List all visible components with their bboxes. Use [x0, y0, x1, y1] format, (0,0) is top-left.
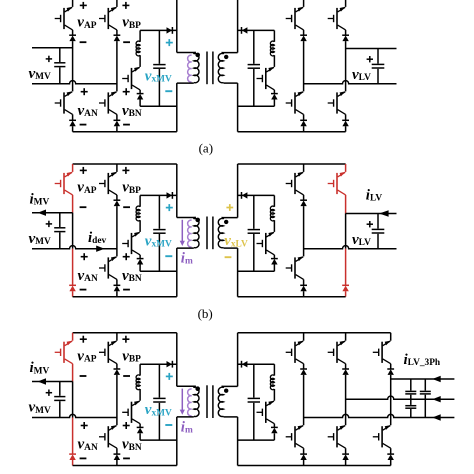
label + of v_xMV (cyan): [166, 373, 173, 380]
capacitor filter C12: [405, 391, 416, 394]
transistor LV leg A' top IGBT: [286, 172, 304, 195]
wire filter capacitor branch 2 upper: [424, 379, 426, 391]
wire MV clamp branch bottom: [139, 265, 141, 272]
wire LV transformer bus lower: [237, 83, 239, 132]
transistor Q_BP/Q_BN leg B top IGBT: [99, 7, 117, 30]
diode MV clamp diode: [137, 94, 144, 100]
wire LV leg B' red tail: [345, 291, 347, 297]
capacitor MV input capacitor: [54, 63, 65, 67]
inductor MV clamp inductor: [136, 41, 140, 56]
wire transformer primary top stub: [177, 385, 196, 387]
wire transformer primary bottom stub: [177, 247, 194, 249]
label + of v_AP: [80, 2, 87, 9]
transistor LV leg B' top IGBT: [328, 7, 346, 30]
capacitor LV clamp capacitor: [248, 65, 260, 69]
wire LV clamp branch bottom: [273, 433, 275, 440]
transistor LV clamp IGBT: [257, 67, 275, 90]
diode leg A red freewheeling diode: [69, 285, 76, 291]
wire MV clamp top rail: [140, 363, 177, 365]
wire v_MV positive terminal: [32, 381, 73, 383]
wire filter capacitor branch 1 lower: [410, 409, 412, 418]
wire transformer secondary bottom stub: [224, 82, 238, 84]
wire LV clamp capacitor branch top: [253, 30, 255, 63]
diode LV clamp series diode: [242, 361, 248, 368]
diode LV clamp diode: [271, 259, 278, 265]
wire MV bottom rail: [73, 465, 177, 467]
transistor LV leg A' top IGBT: [286, 7, 304, 30]
diode Q_BP/Q_BN leg B top series diode: [114, 200, 121, 206]
arrow phase U current: [432, 414, 440, 420]
label - of v_BN: [123, 457, 130, 459]
label + of v_BP: [122, 2, 129, 9]
inductor magnetizing inductance (purple): [188, 55, 192, 82]
wire phase U bottom emitter lead: [303, 448, 305, 454]
node primary polarity dot: [195, 218, 200, 223]
wire LV clamp emitter lead: [273, 424, 275, 428]
wire LV transformer bus upper: [237, 0, 239, 53]
wire MV clamp branch bottom: [139, 100, 141, 107]
arrow phase V current: [432, 396, 440, 402]
wire phase U output line: [304, 414, 455, 417]
diode leg A red freewheeling diode: [69, 454, 76, 460]
wire LV leg A' bottom emitter lead: [303, 114, 305, 120]
wire MV clamp emitter lead: [139, 424, 141, 428]
label + of v_BP: [122, 167, 129, 174]
wire MV transformer bus lower: [176, 248, 178, 297]
wire leg A red emitter path: [72, 195, 74, 213]
wire LV bottom rail: [238, 296, 346, 298]
winding transformer primary: [194, 386, 196, 388]
diode LV leg B' top series diode: [342, 35, 349, 41]
svg-text:(b): (b): [198, 306, 213, 321]
diode Q_AP/Q_AN leg A top series diode: [69, 35, 76, 41]
wire phase V mid section: [345, 375, 347, 425]
wire LV leg A' emitter lead: [303, 195, 305, 200]
wire leg A red collector stub: [72, 333, 74, 341]
wire MV clamp capacitor branch bottom: [158, 403, 160, 440]
wire phase W collector stub: [390, 333, 392, 341]
label + of v_xMV (cyan): [166, 204, 173, 211]
wire MV inductor to IGBT: [139, 220, 141, 232]
winding transformer primary: [194, 53, 196, 55]
capacitor LV clamp capacitor: [248, 230, 260, 234]
wire LV leg A' collector stub: [303, 164, 305, 172]
label - of v_AP: [80, 375, 87, 377]
transistor Q_BP/Q_BN leg B top IGBT: [99, 341, 117, 364]
wire transformer secondary bottom stub: [224, 416, 238, 418]
winding transformer secondary: [222, 53, 224, 55]
wire Q_BP/Q_BN leg B mid section: [116, 375, 118, 425]
transistor Q_BP/Q_BN leg B bottom IGBT: [99, 425, 117, 448]
wire LV clamp bottom rail: [238, 270, 275, 272]
capacitor MV clamp capacitor: [153, 398, 165, 402]
label + of v_BN: [123, 253, 130, 260]
diode LV leg A' bottom series diode: [300, 120, 307, 126]
wire leg A red tail: [72, 460, 74, 466]
wire transformer secondary top stub: [222, 385, 238, 387]
label + of v_AN: [81, 88, 88, 95]
transistor phase W bottom IGBT: [373, 425, 391, 448]
label + of v_AN: [81, 253, 88, 260]
wire LV top DC rail (3-phase): [238, 332, 391, 334]
wire LV output capacitor branch bottom: [377, 69, 379, 84]
wire Q_BP/Q_BN leg B emitter lead: [116, 195, 118, 200]
diode MV clamp diode: [137, 259, 144, 265]
inductor LV clamp inductor: [270, 206, 274, 221]
wire LV leg B' tail to bottom rail: [345, 126, 347, 132]
diode LV clamp diode: [271, 427, 278, 433]
label - of v_BN: [123, 289, 130, 291]
transistor Q_BP/Q_BN leg B bottom IGBT: [99, 256, 117, 279]
label + of v_AP: [80, 167, 87, 174]
wire LV clamp capacitor branch bottom: [253, 69, 255, 106]
transistor MV clamp IGBT: [122, 67, 140, 90]
wire LV output upper rail: [346, 48, 397, 50]
label + of v_AP: [80, 336, 87, 343]
wire magnetizing current arrow line: [181, 220, 183, 242]
label - of v_xLV (gold): [225, 256, 232, 258]
wire LV clamp emitter lead: [273, 255, 275, 259]
wire Q_BP/Q_BN leg B mid section: [116, 41, 118, 91]
core transformer core bars: [207, 217, 213, 250]
wire MV clamp capacitor branch top: [158, 30, 160, 63]
wire MV clamp capacitor branch bottom: [158, 69, 160, 106]
diode LV clamp diode: [271, 94, 278, 100]
wire Q_BP/Q_BN leg B tail to bottom rail: [116, 126, 118, 132]
capacitor MV input capacitor: [54, 228, 65, 232]
wire leg A red return path: [72, 418, 74, 455]
wire MV bottom rail: [73, 131, 177, 133]
core transformer core bars: [207, 52, 213, 85]
wire LV leg B' collector stub: [345, 0, 347, 7]
wire Q_AP/Q_AN leg A emitter lead: [72, 30, 74, 35]
wire LV leg B' red return path: [345, 249, 347, 286]
wire MV transformer bus upper: [176, 0, 178, 53]
wire phase W mid section: [390, 375, 392, 425]
capacitor MV clamp capacitor: [153, 230, 165, 234]
wire filter capacitor branch 2 lower: [424, 395, 426, 418]
label - of v_AP: [80, 206, 87, 208]
wire LV leg B' mid section: [345, 41, 347, 91]
wire Q_BP/Q_BN leg B tail to bottom rail: [116, 291, 118, 297]
wire phase V emitter lead: [345, 364, 347, 369]
arrow magnetizing current direction: [180, 410, 185, 415]
wire LV transformer bus upper: [237, 333, 239, 387]
wire MV clamp emitter lead: [139, 255, 141, 259]
winding transformer secondary: [222, 218, 224, 220]
diode Q_BP/Q_BN leg B bottom series diode: [114, 454, 121, 460]
label - of v_AN: [80, 289, 87, 291]
node primary polarity dot: [195, 53, 200, 58]
wire leg A middle section: [72, 382, 74, 418]
wire MV input capacitor branch bottom: [59, 232, 61, 248]
wire Q_AP/Q_AN leg A bottom emitter lead: [72, 114, 74, 120]
label + of v_BN: [123, 88, 130, 95]
diode MV clamp series diode: [167, 192, 173, 199]
wire LV clamp branch top: [273, 30, 275, 41]
wire Q_AP/Q_AN leg A mid section: [72, 41, 74, 91]
wire MV bottom rail: [73, 296, 177, 298]
diode MV clamp series diode: [167, 361, 173, 368]
wire MV clamp bottom rail: [140, 270, 177, 272]
wire phase W bottom emitter lead: [390, 448, 392, 454]
wire leg A middle section: [72, 213, 74, 249]
wire leg A red collector stub: [72, 164, 74, 172]
diode phase W top series diode: [387, 369, 394, 375]
wire LV clamp bottom rail: [238, 105, 275, 107]
wire v_MV positive terminal: [32, 47, 73, 49]
wire LV leg B' middle section: [345, 214, 347, 249]
transistor LV leg A' bottom IGBT: [286, 91, 304, 114]
wire Q_BP/Q_BN leg B bottom emitter lead: [116, 114, 118, 120]
wire LV clamp capacitor branch top: [253, 364, 255, 397]
arrow i_MV direction: [38, 210, 46, 216]
wire v_MV negative rail: [32, 246, 117, 249]
wire MV clamp top rail: [140, 194, 177, 196]
wire MV transformer bus upper: [176, 164, 178, 218]
capacitor MV input capacitor: [54, 397, 65, 401]
wire MV top DC rail: [73, 163, 177, 165]
diode phase U top series diode: [300, 369, 307, 375]
wire LV clamp capacitor branch bottom: [253, 403, 255, 440]
wire phase U emitter lead: [303, 364, 305, 369]
label + of v_LV: [367, 56, 373, 62]
wire Q_BP/Q_BN leg B collector stub: [116, 333, 118, 341]
node secondary polarity dot: [224, 389, 228, 393]
wire LV bottom rail: [238, 131, 346, 133]
wire LV bottom rail (3-phase): [238, 465, 391, 467]
wire LV leg A' mid section: [303, 41, 305, 91]
wire LV leg A' emitter lead: [303, 30, 305, 35]
inductor MV clamp inductor: [136, 375, 140, 390]
diode LV leg A' top series diode: [300, 200, 307, 206]
wire LV output lower rail: [304, 81, 397, 84]
diode Q_BP/Q_BN leg B bottom series diode: [114, 285, 121, 291]
wire LV clamp branch bottom: [273, 100, 275, 107]
wire Q_BP/Q_BN leg B collector stub: [116, 164, 118, 172]
label + of v_AN: [81, 422, 88, 429]
diode MV clamp series diode: [167, 27, 173, 34]
wire Q_BP/Q_BN leg B emitter lead: [116, 30, 118, 35]
wire phase W output line: [391, 378, 455, 380]
transistor LV leg A' bottom IGBT: [286, 256, 304, 279]
diode LV clamp series diode: [242, 192, 248, 199]
wire magnetizing current arrow line: [181, 389, 183, 411]
diode LV leg A' top series diode: [300, 35, 307, 41]
wire LV clamp top rail: [238, 363, 275, 365]
label - of v_AP: [80, 41, 87, 43]
transistor LV clamp IGBT: [257, 232, 275, 255]
wire LV inductor to IGBT: [273, 55, 275, 67]
wire MV inductor to IGBT: [139, 55, 141, 67]
label - of v_xMV (cyan): [165, 90, 172, 92]
transistor LV clamp IGBT: [257, 401, 275, 424]
label - of v_AN: [80, 124, 87, 126]
label + of v_xLV (gold): [226, 204, 233, 211]
wire MV input capacitor branch top: [59, 382, 61, 396]
wire phase U collector stub: [303, 333, 305, 341]
wire MV clamp branch top: [139, 30, 141, 41]
diode LV leg A' bottom series diode: [300, 285, 307, 291]
winding transformer secondary: [222, 386, 224, 388]
winding transformer primary: [194, 218, 196, 220]
transistor LV leg B' red IGBT: [328, 172, 346, 195]
wire LV transformer bus lower: [237, 417, 239, 466]
wire LV leg A' bottom emitter lead: [303, 279, 305, 285]
wire LV clamp capacitor branch bottom: [253, 234, 255, 271]
diode phase V top series diode: [342, 369, 349, 375]
diode LV leg B' red freewheeling diode: [342, 285, 349, 291]
label + of v_LV: [367, 221, 373, 227]
wire MV transformer bus upper: [176, 333, 178, 387]
diode phase U bottom series diode: [300, 454, 307, 460]
wire LV inductor to IGBT: [273, 389, 275, 401]
wire Q_BP/Q_BN leg B emitter lead: [116, 364, 118, 369]
wire MV clamp top rail: [140, 29, 177, 31]
inductor LV clamp inductor: [270, 41, 274, 56]
wire phase U tail to bottom rail: [303, 460, 305, 466]
wire Q_BP/Q_BN leg B bottom emitter lead: [116, 279, 118, 285]
node secondary polarity dot: [224, 55, 228, 59]
wire phase V tail to bottom rail: [345, 460, 347, 466]
wire v_MV negative rail: [32, 81, 117, 84]
svg-text:(a): (a): [199, 141, 213, 156]
diode Q_BP/Q_BN leg B top series diode: [114, 35, 121, 41]
wire LV clamp capacitor branch top: [253, 195, 255, 228]
wire MV transformer bus lower: [176, 417, 178, 466]
transistor LV leg B' bottom IGBT: [328, 91, 346, 114]
label + of v_xMV (cyan): [166, 39, 173, 46]
wire Q_BP/Q_BN leg B collector stub: [116, 0, 118, 7]
arrow i_LV direction: [379, 210, 388, 216]
wire LV leg A' tail to bottom rail: [303, 126, 305, 132]
label polarity + of MV capacitor: [46, 56, 52, 62]
wire Q_AP/Q_AN leg A tail to bottom rail: [72, 126, 74, 132]
wire MV inductor to IGBT: [139, 389, 141, 401]
arrow magnetizing current direction: [180, 241, 185, 246]
capacitor LV output capacitor: [372, 229, 385, 233]
arrow i_dev direction: [96, 246, 104, 252]
wire phase V collector stub: [345, 333, 347, 341]
transistor phase W top IGBT: [373, 341, 391, 364]
wire transformer primary bottom stub: [177, 416, 194, 418]
transistor MV clamp IGBT: [122, 232, 140, 255]
wire leg A red tail: [72, 291, 74, 297]
wire MV clamp branch top: [139, 364, 141, 375]
wire MV top DC rail: [73, 332, 177, 334]
wire transformer secondary top stub: [222, 217, 238, 219]
wire LV leg B' red collector stub: [345, 164, 347, 172]
wire LV transformer bus lower: [237, 248, 239, 297]
wire leg A red return path: [72, 249, 74, 286]
wire LV clamp branch bottom: [273, 265, 275, 272]
label - of v_xMV (cyan): [165, 255, 172, 257]
wire phase W emitter lead: [390, 364, 392, 369]
diode LV clamp series diode: [242, 27, 248, 34]
wire MV input capacitor branch top: [59, 48, 61, 62]
transistor leg A red IGBT: [55, 341, 73, 364]
wire Q_BP/Q_BN leg B bottom emitter lead: [116, 448, 118, 454]
wire transformer secondary top stub: [222, 52, 238, 54]
wire MV clamp branch top: [139, 195, 141, 206]
wire LV output capacitor branch bottom: [377, 234, 379, 249]
wire LV clamp emitter lead: [273, 90, 275, 94]
wire LV leg B' red emitter path: [345, 195, 347, 214]
wire LV leg B' emitter lead: [345, 30, 347, 35]
label - of v_AN: [80, 457, 87, 459]
wire MV clamp emitter lead: [139, 90, 141, 94]
wire MV clamp capacitor branch bottom: [158, 234, 160, 271]
wire LV inductor to IGBT: [273, 220, 275, 232]
label polarity + of MV capacitor: [46, 221, 52, 227]
wire Q_BP/Q_BN leg B mid section: [116, 206, 118, 256]
diode phase W bottom series diode: [387, 454, 394, 460]
arrow i_MV direction: [38, 378, 46, 384]
wire MV clamp branch bottom: [139, 433, 141, 440]
wire LV transformer bus upper: [237, 164, 239, 218]
core transformer core bars: [207, 385, 213, 418]
wire LV output upper rail: [346, 213, 397, 215]
diode Q_AP/Q_AN leg A bottom series diode: [69, 120, 76, 126]
transistor phase V top IGBT: [328, 341, 346, 364]
inductor MV clamp inductor: [136, 206, 140, 221]
wire Q_BP/Q_BN leg B tail to bottom rail: [116, 460, 118, 466]
capacitor filter C23: [405, 406, 416, 409]
wire LV clamp branch top: [273, 195, 275, 206]
label - of v_xMV (cyan): [165, 424, 172, 426]
label polarity + of MV capacitor: [46, 390, 52, 396]
wire MV input capacitor branch bottom: [59, 67, 61, 83]
label + of v_BN: [123, 422, 130, 429]
arrow phase W current: [432, 376, 440, 382]
wire MV input capacitor branch bottom: [59, 401, 61, 417]
node secondary polarity dot: [224, 220, 228, 224]
wire filter capacitor branch 1 upper: [410, 379, 412, 391]
transistor leg A red IGBT: [55, 172, 73, 195]
label - of v_BP: [123, 375, 130, 377]
transistor Q_BP/Q_BN leg B bottom IGBT: [99, 91, 117, 114]
wire LV output capacitor branch top: [377, 214, 379, 229]
wire phase U mid section: [303, 375, 305, 425]
wire LV leg B' bottom emitter lead: [345, 114, 347, 120]
label - of v_BN: [123, 124, 130, 126]
diode Q_BP/Q_BN leg B bottom series diode: [114, 120, 121, 126]
transistor Q_AP/Q_AN leg A top IGBT: [55, 7, 73, 30]
wire phase W tail to bottom rail: [390, 460, 392, 466]
wire transformer primary bottom stub: [177, 82, 194, 84]
transistor MV clamp IGBT: [122, 401, 140, 424]
label - of v_BP: [123, 206, 130, 208]
wire v_MV positive terminal: [32, 212, 73, 214]
wire phase V bottom emitter lead: [345, 448, 347, 454]
capacitor MV clamp capacitor: [153, 65, 165, 69]
capacitor LV clamp capacitor: [248, 398, 260, 402]
wire LV top DC rail: [238, 163, 346, 165]
wire LV output capacitor branch top: [377, 49, 379, 64]
wire MV clamp bottom rail: [140, 439, 177, 441]
diode MV clamp diode: [137, 427, 144, 433]
wire LV leg A' tail to bottom rail: [303, 291, 305, 297]
label + of v_BP: [122, 336, 129, 343]
transistor phase V bottom IGBT: [328, 425, 346, 448]
wire MV input capacitor branch top: [59, 213, 61, 227]
wire MV clamp bottom rail: [140, 105, 177, 107]
capacitor filter C13: [420, 391, 431, 394]
transistor phase U top IGBT: [286, 341, 304, 364]
wire transformer primary top stub: [177, 52, 196, 54]
transistor phase U bottom IGBT: [286, 425, 304, 448]
diode phase V bottom series diode: [342, 454, 349, 460]
